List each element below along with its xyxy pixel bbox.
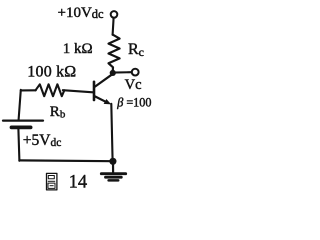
resistor Rb [36, 84, 65, 96]
battery +5Vdc [3, 121, 43, 128]
terminal +10Vdc [111, 11, 118, 18]
wire bottom rail [19, 159, 113, 162]
node emitter-ground junction [109, 158, 116, 165]
wire emitter vertical [111, 104, 112, 161]
label Rc [128, 41, 144, 59]
wire Rb left horizontal [21, 89, 36, 91]
wire collector to Vc terminal [113, 71, 132, 74]
svg-text:Vc: Vc [125, 77, 142, 93]
label Rb [50, 104, 66, 121]
caption number 14 [69, 172, 88, 192]
node collector junction [110, 70, 116, 76]
wire supply to Rc [113, 18, 114, 35]
svg-text:14: 14 [69, 172, 88, 192]
wire battery to bottom rail [18, 129, 19, 161]
label beta=100 [116, 96, 151, 110]
transistor Q1 [94, 75, 112, 105]
label 1 kΩ value of Rc [63, 41, 93, 57]
svg-text:+10Vdc: +10Vdc [58, 5, 105, 21]
svg-text:100 kΩ: 100 kΩ [27, 64, 76, 81]
svg-text:Rc: Rc [128, 41, 144, 59]
svg-text:1 kΩ: 1 kΩ [63, 41, 93, 57]
label 100 kΩ value of Rb [27, 64, 76, 81]
label +5Vdc [23, 132, 62, 149]
ground [101, 161, 125, 180]
svg-text:Rb: Rb [50, 104, 66, 121]
wire base [63, 90, 93, 92]
resistor Rc [109, 35, 120, 71]
svg-text:+5Vdc: +5Vdc [23, 132, 62, 149]
label Vc [125, 77, 142, 93]
wire left vertical to battery [19, 90, 21, 120]
caption 圖 (figure) glyph [47, 173, 57, 190]
svg-text:β =100: β =100 [116, 96, 151, 110]
terminal Vc [132, 69, 139, 76]
node +10Vdc label [58, 5, 105, 21]
